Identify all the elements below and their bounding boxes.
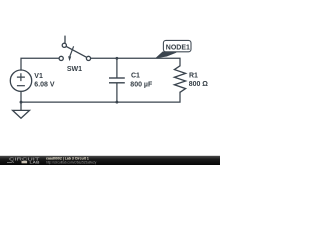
watermark logo LAB line: [7, 162, 14, 163]
svg-text:SW1: SW1: [67, 66, 82, 73]
voltage source V1: [10, 70, 31, 91]
junction dot at V1 bottom: [20, 101, 23, 104]
wire V1 bottom stub: [20, 91, 22, 102]
svg-text:http://circuitlab.com/c/6az5z5: http://circuitlab.com/c/6az5z5a8w2y: [46, 160, 97, 164]
resistor R1: [174, 66, 185, 93]
junction dot at capacitor bottom: [115, 101, 118, 104]
svg-text:V1: V1: [34, 73, 43, 80]
svg-text:LAB: LAB: [30, 161, 41, 165]
svg-text:800 µF: 800 µF: [130, 81, 153, 88]
svg-text:C1: C1: [131, 73, 140, 80]
svg-text:NODE1: NODE1: [166, 44, 190, 51]
node flag NODE1 pointer: [156, 52, 176, 58]
junction dot at capacitor top: [115, 57, 118, 60]
ground: [13, 102, 30, 118]
svg-text:R1: R1: [189, 73, 198, 80]
wire from switch right terminal to resistor top corner: [91, 58, 180, 66]
svg-text:6.08 V: 6.08 V: [34, 82, 55, 89]
wire bottom rail: [21, 92, 180, 102]
capacitor C1: [109, 78, 125, 83]
node flag NODE1 box: [163, 40, 191, 51]
switch SW1: [59, 36, 90, 62]
wire capacitor top stub: [116, 58, 118, 77]
wire from V1 top to switch left terminal: [21, 58, 59, 70]
svg-text:800 Ω: 800 Ω: [189, 81, 209, 88]
wire capacitor bottom stub: [116, 83, 118, 102]
